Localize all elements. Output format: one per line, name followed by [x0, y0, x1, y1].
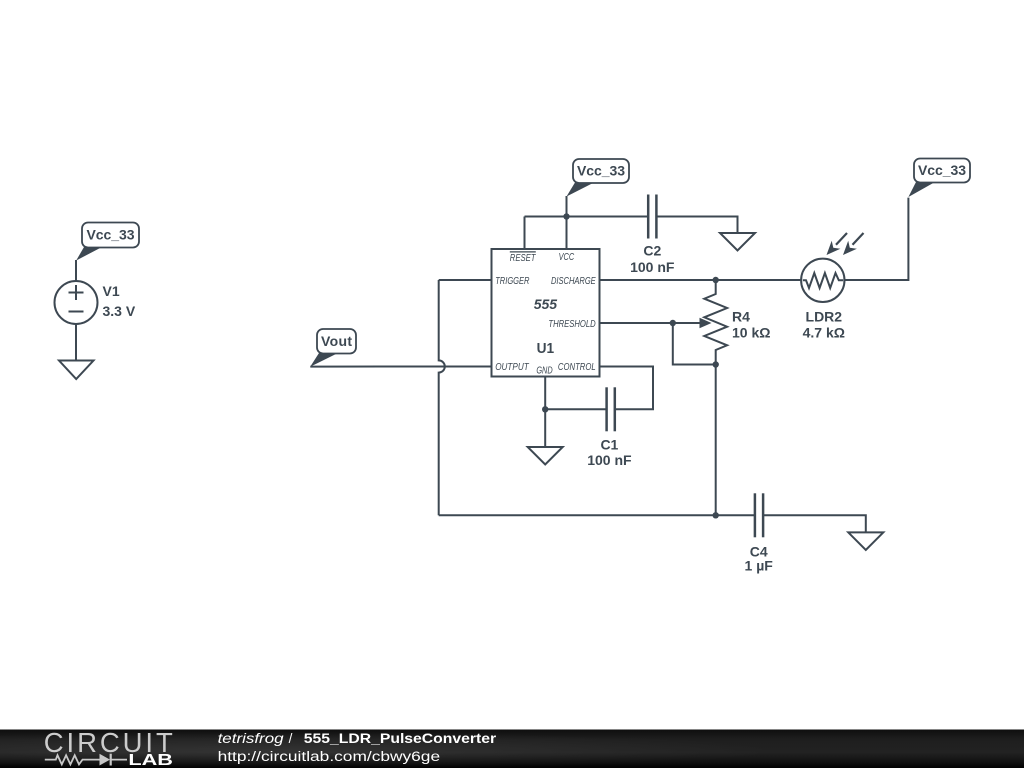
- svg-text:10 kΩ: 10 kΩ: [732, 325, 770, 341]
- svg-text:DISCHARGE: DISCHARGE: [551, 275, 596, 287]
- svg-text:C2: C2: [643, 243, 661, 259]
- junction R4 bottom: [713, 361, 719, 367]
- svg-text:Vcc_33: Vcc_33: [87, 227, 135, 243]
- svg-text:R4: R4: [732, 309, 750, 325]
- label V1 3.3 V: [103, 283, 136, 319]
- wire LDR right up to flag: [845, 198, 909, 280]
- svg-text:LAB: LAB: [128, 752, 173, 768]
- wire TRIGGER pin left: [439, 279, 492, 281]
- svg-text:100 nF: 100 nF: [630, 259, 675, 275]
- capacitor C1: [607, 387, 615, 431]
- wire R4 bottom down: [715, 365, 717, 516]
- svg-text:VCC: VCC: [559, 251, 575, 263]
- svg-text:OUTPUT: OUTPUT: [495, 361, 530, 373]
- svg-text:U1: U1: [537, 340, 555, 357]
- label R4 10 kOhm: [732, 309, 770, 341]
- svg-text:RESET: RESET: [510, 252, 537, 264]
- photoresistor LDR2: [801, 233, 863, 302]
- svg-text:tetrisfrog: tetrisfrog: [218, 731, 285, 746]
- potentiometer wiper arrow: [673, 318, 712, 328]
- svg-text:Vcc_33: Vcc_33: [577, 163, 625, 179]
- wire bottom rail: [439, 514, 755, 516]
- ground at V1: [59, 361, 94, 380]
- label C1 100 nF: [587, 437, 632, 468]
- ground at U1: [528, 447, 563, 465]
- IC U1 555 timer body: [492, 249, 600, 377]
- svg-text:/: /: [289, 731, 293, 746]
- voltage source V1: [55, 281, 98, 324]
- wire C4 right to ground: [763, 515, 866, 532]
- svg-text:4.7 kΩ: 4.7 kΩ: [803, 325, 845, 341]
- svg-text:Vout: Vout: [321, 333, 352, 349]
- wire DISCHARGE rail to LDR: [600, 279, 802, 281]
- pin label RESET: [510, 252, 537, 264]
- svg-text:GND: GND: [536, 365, 553, 377]
- wire flag to rail: [566, 196, 568, 217]
- svg-text:1 µF: 1 µF: [745, 557, 774, 573]
- svg-text:TRIGGER: TRIGGER: [495, 275, 530, 287]
- wire RESET pin up: [524, 217, 526, 250]
- net flag Vcc_33 at V1: [76, 223, 139, 261]
- schematic title text: [218, 731, 497, 746]
- net flag Vcc_33 at U1: [567, 159, 630, 197]
- junction threshold: [670, 320, 676, 326]
- wire OUTPUT pin left: [310, 366, 491, 368]
- svg-text:http://circuitlab.com/cbwy6ge: http://circuitlab.com/cbwy6ge: [218, 749, 440, 764]
- junction VCC rail: [563, 213, 569, 219]
- svg-text:555_LDR_PulseConverter: 555_LDR_PulseConverter: [304, 731, 497, 746]
- junction bottom rail: [713, 512, 719, 518]
- wire C1 left to GND pin: [545, 408, 606, 410]
- wire threshold down to R4 bottom: [673, 323, 716, 365]
- wire C2 right to ground: [656, 217, 737, 234]
- wire V1 bottom: [75, 324, 77, 361]
- wire VCC pin up: [566, 217, 568, 250]
- svg-text:555: 555: [534, 296, 557, 312]
- wire GND pin down: [544, 377, 546, 448]
- svg-text:THRESHOLD: THRESHOLD: [548, 318, 596, 330]
- svg-text:CONTROL: CONTROL: [558, 361, 596, 373]
- ground at C4: [848, 532, 883, 550]
- label LDR2 4.7 kOhm: [803, 309, 845, 341]
- svg-text:Vcc_33: Vcc_33: [918, 162, 966, 178]
- junction R4 top: [713, 277, 719, 283]
- svg-text:LDR2: LDR2: [806, 309, 843, 325]
- CircuitLab logo: [44, 727, 173, 768]
- label C2 100 nF: [630, 243, 675, 276]
- ground at C2: [720, 233, 755, 251]
- wire V1 top: [75, 260, 77, 281]
- svg-text:C1: C1: [600, 437, 618, 453]
- capacitor C2: [648, 195, 656, 239]
- svg-text:V1: V1: [103, 283, 120, 299]
- svg-text:100 nF: 100 nF: [587, 452, 632, 468]
- resistor R4 (pot): [704, 280, 727, 365]
- wire THRESHOLD pin right: [600, 322, 673, 324]
- net flag Vcc_33 at LDR: [908, 159, 970, 198]
- wire top rail to C2: [525, 216, 649, 218]
- wire CONTROL pin to C1: [600, 367, 654, 410]
- net flag Vout: [310, 329, 356, 367]
- capacitor C4: [755, 493, 763, 537]
- label C4 1 uF: [745, 544, 774, 574]
- wire trigger vertical with hop over output: [439, 280, 445, 515]
- svg-text:3.3 V: 3.3 V: [103, 303, 136, 319]
- junction GND C1: [542, 406, 548, 412]
